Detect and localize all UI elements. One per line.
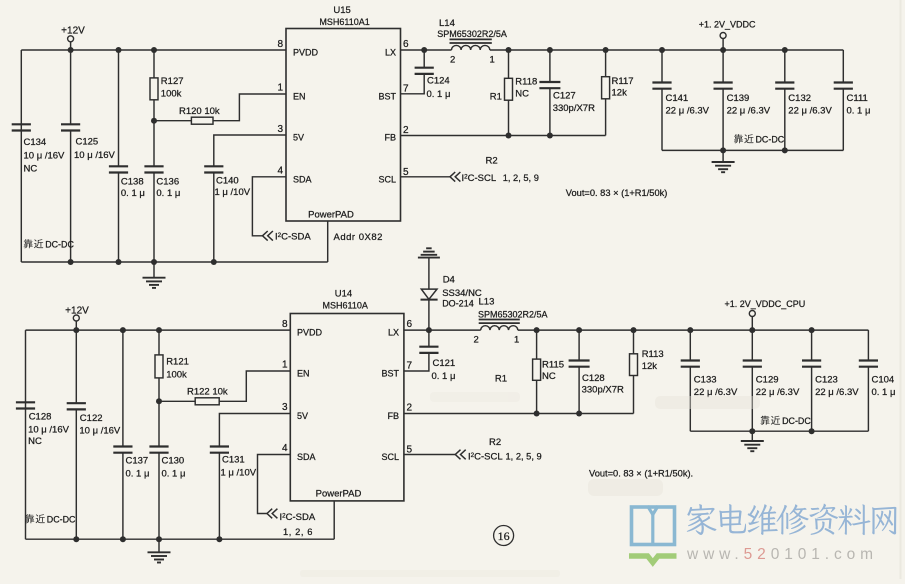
svg-text:D4: D4 bbox=[443, 275, 455, 286]
svg-text:R1: R1 bbox=[495, 374, 507, 385]
svg-text:NC: NC bbox=[542, 371, 556, 382]
capacitor C133 bbox=[681, 330, 738, 431]
capacitor C132 bbox=[775, 50, 832, 150]
svg-text:0. 1 μ: 0. 1 μ bbox=[156, 188, 180, 199]
svg-text:8: 8 bbox=[277, 39, 283, 50]
svg-text:6: 6 bbox=[403, 39, 409, 50]
svg-text:C133: C133 bbox=[694, 375, 717, 386]
svg-text:22 μ /6.3V: 22 μ /6.3V bbox=[727, 106, 771, 117]
resistor R127 bbox=[150, 50, 184, 121]
capacitor C104 bbox=[859, 330, 896, 431]
svg-text:C139: C139 bbox=[727, 93, 750, 104]
node R127/R120 junction bbox=[151, 118, 157, 124]
svg-text:3: 3 bbox=[282, 402, 288, 413]
svg-text:C131: C131 bbox=[222, 455, 245, 466]
svg-text:100k: 100k bbox=[166, 370, 187, 381]
svg-text:R2: R2 bbox=[489, 437, 501, 448]
net I2C-SDA (bottom) bbox=[267, 509, 316, 537]
wire PowerPAD stub (bottom) bbox=[333, 501, 335, 539]
svg-text:5V: 5V bbox=[297, 411, 308, 421]
svg-text:C111: C111 bbox=[847, 93, 868, 104]
svg-text:SS34/NC: SS34/NC bbox=[442, 288, 482, 299]
wire SCL pin 5 (bottom) bbox=[404, 454, 455, 456]
svg-text:NC: NC bbox=[515, 89, 529, 100]
svg-text:EN: EN bbox=[297, 369, 310, 379]
svg-text:C141: C141 bbox=[666, 93, 689, 104]
svg-text:6: 6 bbox=[407, 319, 413, 330]
svg-text:0. 1 μ: 0. 1 μ bbox=[121, 188, 145, 199]
svg-text:100k: 100k bbox=[161, 89, 182, 100]
svg-text:DO-214: DO-214 bbox=[442, 298, 474, 308]
svg-text:7: 7 bbox=[403, 84, 409, 95]
wire bottom ground rail (top) bbox=[21, 261, 327, 263]
svg-text:C124: C124 bbox=[427, 76, 450, 87]
capacitor C134 bbox=[12, 124, 65, 174]
label kaojin DC-DC (top right) bbox=[734, 134, 785, 144]
wire PowerPAD stub to ground rail bbox=[327, 221, 329, 262]
svg-text:C121: C121 bbox=[433, 358, 456, 369]
resistor R120 bbox=[154, 106, 220, 124]
svg-text:C123: C123 bbox=[815, 375, 838, 386]
svg-text:10 μ /16V: 10 μ /16V bbox=[24, 150, 66, 161]
svg-text:2: 2 bbox=[403, 125, 409, 136]
ground above diode D4 (inverted) bbox=[418, 248, 440, 289]
svg-text:C127: C127 bbox=[553, 91, 576, 102]
scan artifacts (faint) bbox=[300, 0, 902, 579]
svg-text:R2: R2 bbox=[486, 156, 498, 167]
junction dots on top rail bbox=[68, 47, 157, 53]
svg-text:+1. 2V_VDDC_CPU: +1. 2V_VDDC_CPU bbox=[725, 299, 806, 309]
svg-text:10 μ /16V: 10 μ /16V bbox=[79, 426, 121, 437]
node LX/D4 junction bbox=[426, 327, 432, 333]
svg-text:7: 7 bbox=[407, 361, 413, 372]
capacitor C121 bbox=[404, 330, 456, 382]
capacitor C128 input bbox=[16, 402, 70, 447]
wire LX pin 6 (bottom) to L13 bbox=[404, 329, 481, 331]
svg-text:SDA: SDA bbox=[297, 452, 316, 462]
capacitor C125 bbox=[61, 50, 116, 262]
svg-text:+12V: +12V bbox=[61, 26, 85, 37]
svg-text:R117: R117 bbox=[612, 76, 634, 87]
resistor R122 bbox=[159, 387, 228, 405]
junction dots on FB line (top) bbox=[506, 133, 553, 139]
capacitor C129 bbox=[743, 330, 800, 431]
diode D4 bbox=[421, 275, 482, 331]
svg-text:0. 1 μ: 0. 1 μ bbox=[847, 106, 871, 117]
net I2C-SCL (top) bbox=[450, 172, 539, 184]
svg-text:2: 2 bbox=[450, 54, 455, 65]
junction dots on ground rail (bottom) bbox=[73, 536, 222, 542]
op-amp U14 regulator IC MSH6110A bbox=[290, 289, 404, 501]
watermark book logo bbox=[629, 506, 677, 567]
ground (bottom output bank) bbox=[741, 431, 764, 451]
inductor L13 bbox=[474, 296, 548, 345]
svg-text:C138: C138 bbox=[121, 176, 144, 187]
node +1.2V_VDDC_CPU bbox=[725, 299, 806, 330]
svg-text:FB: FB bbox=[384, 133, 396, 143]
wire LX pin 6 to L14 and output rail bbox=[401, 49, 452, 51]
svg-text:1, 2, 6: 1, 2, 6 bbox=[283, 527, 313, 537]
svg-text:12k: 12k bbox=[642, 361, 658, 372]
svg-text:SCL: SCL bbox=[378, 174, 396, 184]
svg-text:22 μ /6.3V: 22 μ /6.3V bbox=[788, 106, 832, 117]
svg-text:C122: C122 bbox=[80, 413, 103, 424]
page number 16 circled bbox=[494, 526, 514, 546]
wire SDA pin 4 to I2C-SDA (bottom) bbox=[258, 455, 291, 514]
svg-text:I2C-SDA: I2C-SDA bbox=[275, 232, 311, 243]
node R121/R122 junction bbox=[156, 398, 162, 404]
capacitor C136 bbox=[144, 121, 180, 262]
capacitor C130 bbox=[149, 401, 185, 539]
capacitor C140 bbox=[204, 166, 251, 262]
svg-text:L13: L13 bbox=[479, 296, 495, 307]
watermark chinese text bbox=[687, 504, 897, 535]
svg-text:3: 3 bbox=[277, 124, 283, 135]
svg-text:NC: NC bbox=[28, 436, 42, 447]
svg-text:PVDD: PVDD bbox=[297, 328, 323, 338]
capacitor C111 bbox=[834, 50, 871, 150]
wire 5V pin 3 to C131 bbox=[219, 414, 290, 447]
svg-text:C136: C136 bbox=[156, 176, 179, 187]
svg-text:22 μ /6.3V: 22 μ /6.3V bbox=[666, 106, 710, 117]
svg-text:EN: EN bbox=[293, 92, 306, 102]
svg-text:1: 1 bbox=[277, 83, 283, 94]
svg-text:PVDD: PVDD bbox=[293, 48, 319, 58]
svg-text:2: 2 bbox=[474, 334, 479, 345]
wire bottom ground rail (bottom) bbox=[26, 538, 335, 540]
wire R120 to EN pin 1 bbox=[213, 94, 286, 121]
capacitor C138 bbox=[109, 50, 145, 262]
svg-text:SPM65302R2/5A: SPM65302R2/5A bbox=[437, 29, 507, 39]
svg-text:SDA: SDA bbox=[293, 174, 312, 184]
svg-text:+1. 2V_VDDC: +1. 2V_VDDC bbox=[699, 20, 756, 30]
net I2C-SDA (top) bbox=[263, 231, 312, 243]
wire left vertical bus (bottom) bbox=[25, 330, 27, 539]
svg-text:0. 1 μ: 0. 1 μ bbox=[126, 469, 150, 480]
svg-text:1: 1 bbox=[514, 334, 519, 345]
U15 pin numbers bbox=[277, 39, 409, 178]
svg-text:1, 2, 5, 9: 1, 2, 5, 9 bbox=[506, 451, 542, 461]
wire L13 to +1.2V_VDDC_CPU rail bbox=[518, 329, 869, 331]
wire 5V pin 3 to C140 bbox=[214, 135, 286, 166]
svg-text:C130: C130 bbox=[162, 456, 185, 467]
svg-text:4: 4 bbox=[282, 443, 288, 454]
svg-text:R127: R127 bbox=[161, 76, 184, 87]
svg-text:R118: R118 bbox=[515, 77, 537, 88]
svg-text:Vout=0. 83 × (1+R1/50k): Vout=0. 83 × (1+R1/50k) bbox=[566, 188, 668, 198]
junction dots on FB line (bottom) bbox=[534, 411, 583, 417]
svg-text:I2C-SCL: I2C-SCL bbox=[462, 173, 497, 184]
label kaojin DC-DC (bottom right) bbox=[761, 416, 812, 426]
U14 pin numbers bbox=[282, 319, 413, 456]
svg-text:10 μ /16V: 10 μ /16V bbox=[74, 150, 116, 161]
svg-text:FB: FB bbox=[387, 411, 399, 421]
svg-text:www.520101.com: www.520101.com bbox=[686, 546, 878, 563]
ground (bottom circuit) bbox=[148, 539, 171, 562]
inductor L14 bbox=[437, 18, 507, 66]
capacitor C131 bbox=[210, 447, 257, 540]
svg-text:C132: C132 bbox=[788, 93, 811, 104]
svg-text:C128: C128 bbox=[582, 373, 605, 384]
svg-text:C137: C137 bbox=[126, 456, 149, 467]
svg-text:R120 10k: R120 10k bbox=[179, 106, 220, 117]
svg-text:C104: C104 bbox=[872, 375, 895, 386]
label kaojin DC-DC (top left) bbox=[24, 239, 75, 249]
junction dots bank rail (top) bbox=[720, 147, 788, 153]
wire bottom rail of output bank (bottom) bbox=[690, 430, 868, 432]
svg-text:1: 1 bbox=[282, 360, 288, 371]
svg-text:330p/X7R: 330p/X7R bbox=[553, 103, 595, 114]
svg-text:U14: U14 bbox=[335, 289, 352, 300]
junction dots on +12V rail (bottom) bbox=[73, 327, 162, 333]
svg-text:0. 1 μ: 0. 1 μ bbox=[432, 371, 456, 382]
svg-text:I2C-SCL: I2C-SCL bbox=[468, 451, 503, 462]
junction dots on output rail (top) bbox=[506, 47, 788, 53]
node +12V (top) bbox=[61, 26, 85, 51]
svg-text:L14: L14 bbox=[439, 18, 455, 29]
resistor R115 bbox=[533, 330, 564, 413]
svg-text:MSH6110A1: MSH6110A1 bbox=[319, 17, 369, 27]
svg-text:LX: LX bbox=[385, 48, 396, 58]
svg-text:LX: LX bbox=[388, 328, 399, 338]
wire bottom rail of output bank (top) bbox=[662, 149, 843, 151]
svg-text:330p/X7R: 330p/X7R bbox=[582, 385, 624, 396]
svg-text:C125: C125 bbox=[76, 137, 99, 148]
svg-text:R1: R1 bbox=[490, 91, 502, 102]
svg-text:U15: U15 bbox=[333, 5, 350, 16]
svg-text:R115: R115 bbox=[542, 360, 564, 371]
svg-text:0. 1 μ: 0. 1 μ bbox=[872, 387, 896, 398]
svg-text:DC-DC: DC-DC bbox=[47, 515, 76, 525]
svg-text:1, 2, 5, 9: 1, 2, 5, 9 bbox=[503, 173, 539, 183]
svg-text:22 μ /6.3V: 22 μ /6.3V bbox=[815, 387, 859, 398]
wire FB pin 2 feedback line (bottom) bbox=[404, 413, 634, 415]
svg-text:NC: NC bbox=[24, 163, 38, 174]
svg-text:22 μ /6.3V: 22 μ /6.3V bbox=[756, 387, 800, 398]
svg-text:R113: R113 bbox=[642, 349, 664, 360]
net I2C-SCL (bottom) bbox=[455, 450, 541, 463]
svg-text:4: 4 bbox=[277, 166, 283, 177]
svg-text:1: 1 bbox=[490, 54, 495, 65]
svg-text:5V: 5V bbox=[293, 133, 304, 143]
svg-text:Vout=0. 83 × (1+R1/50k).: Vout=0. 83 × (1+R1/50k). bbox=[589, 469, 693, 479]
svg-text:PowerPAD: PowerPAD bbox=[308, 210, 354, 221]
svg-text:2: 2 bbox=[407, 403, 413, 414]
ground (top output bank) bbox=[712, 150, 735, 172]
node +1.2V_VDDC bbox=[699, 20, 756, 51]
node LX/C124 junction bbox=[421, 47, 427, 53]
capacitor C139 bbox=[714, 50, 771, 150]
capacitor C127 bbox=[539, 50, 595, 136]
svg-text:R121: R121 bbox=[166, 357, 189, 368]
svg-text:DC-DC: DC-DC bbox=[756, 135, 785, 145]
svg-text:MSH6110A: MSH6110A bbox=[323, 301, 368, 311]
junction dots on output rail (bottom) bbox=[534, 327, 815, 333]
wire L14 to +1.2V_VDDC rail bbox=[490, 49, 844, 51]
wire FB pin 2 feedback line (top) bbox=[401, 135, 606, 137]
svg-text:DC-DC: DC-DC bbox=[782, 416, 811, 426]
label kaojin DC-DC (bottom left) bbox=[25, 514, 76, 524]
svg-text:C128: C128 bbox=[29, 412, 52, 423]
svg-text:SPM65302R2/5A: SPM65302R2/5A bbox=[478, 309, 548, 319]
resistor R113 bbox=[630, 330, 664, 413]
svg-text:SCL: SCL bbox=[381, 452, 399, 462]
op-amp U15 regulator IC MSH6110A1 bbox=[286, 5, 401, 221]
resistor R117 bbox=[602, 50, 634, 136]
svg-text:1 μ /10V: 1 μ /10V bbox=[215, 187, 251, 198]
svg-text:PowerPAD: PowerPAD bbox=[316, 489, 362, 500]
svg-text:16: 16 bbox=[498, 529, 510, 543]
svg-text:C129: C129 bbox=[756, 375, 779, 386]
junction dots bank rail (bottom) bbox=[749, 428, 814, 434]
svg-text:8: 8 bbox=[282, 319, 288, 330]
svg-text:DC-DC: DC-DC bbox=[45, 240, 74, 250]
svg-text:Addr 0X82: Addr 0X82 bbox=[334, 232, 383, 243]
wire SCL pin 5 (top) bbox=[401, 176, 450, 178]
svg-text:BST: BST bbox=[381, 369, 399, 379]
svg-text:0. 1 μ: 0. 1 μ bbox=[162, 469, 186, 480]
junction dots on bottom rail (top circuit) bbox=[68, 259, 217, 265]
svg-text:BST: BST bbox=[378, 92, 396, 102]
ground (top circuit) bbox=[143, 262, 166, 288]
resistor R121 bbox=[155, 330, 189, 401]
capacitor C137 bbox=[113, 330, 149, 539]
svg-text:I2C-SDA: I2C-SDA bbox=[280, 512, 316, 523]
wire SDA pin 4 to I2C-SDA bbox=[252, 177, 286, 236]
svg-text:12k: 12k bbox=[612, 88, 628, 99]
resistor R118 bbox=[505, 50, 538, 136]
svg-text:C134: C134 bbox=[24, 137, 47, 148]
capacitor C122 bbox=[67, 330, 121, 539]
svg-text:C140: C140 bbox=[216, 176, 239, 187]
wire top +12V rail (bottom circuit) bbox=[26, 329, 291, 331]
capacitor C124 bbox=[401, 50, 451, 100]
svg-text:R122 10k: R122 10k bbox=[187, 387, 228, 398]
wire top +12V rail bbox=[21, 49, 286, 51]
svg-text:10 μ /16V: 10 μ /16V bbox=[28, 424, 70, 435]
wire R122 to EN pin 1 (bottom) bbox=[219, 371, 290, 401]
node +12V (bottom) bbox=[65, 305, 89, 330]
capacitor C123 bbox=[802, 330, 859, 431]
capacitor C141 bbox=[652, 50, 709, 150]
wire left vertical bus (top) bbox=[20, 50, 22, 262]
svg-text:1 μ /10V: 1 μ /10V bbox=[221, 468, 257, 479]
svg-text:0. 1 μ: 0. 1 μ bbox=[427, 89, 451, 100]
capacitor C128 output filter bbox=[569, 330, 624, 413]
